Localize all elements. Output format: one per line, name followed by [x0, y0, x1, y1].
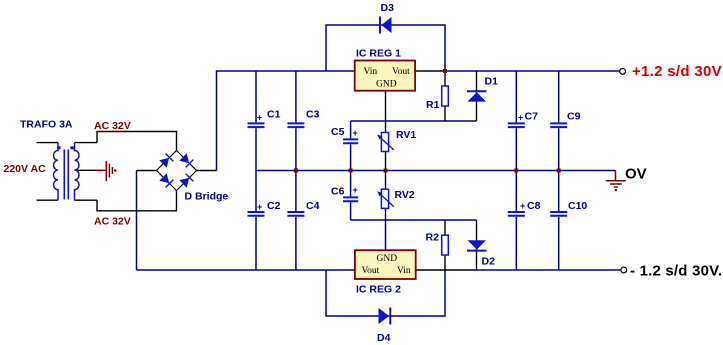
capacitor C1: [248, 123, 265, 127]
svg-text:RV1: RV1: [396, 129, 416, 141]
resistor R2: [442, 235, 449, 255]
wire bottom rail right: [477, 269, 621, 271]
wires-group: [137, 25, 621, 316]
bridge diode bottom-right: [179, 174, 193, 188]
pin stub reg1 right: [415, 70, 445, 72]
svg-text:C7: C7: [525, 111, 539, 123]
svg-text:GND: GND: [376, 80, 397, 90]
bridge diode top-right: [179, 153, 193, 167]
capacitor C5: [343, 139, 358, 143]
capacitor C6: [343, 197, 358, 201]
svg-text:+: +: [353, 128, 358, 138]
capacitor C8: [508, 212, 525, 216]
wire D4 loop: [326, 270, 445, 316]
svg-text:- 1.2 s/d 30V.: - 1.2 s/d 30V.: [630, 263, 722, 280]
svg-text:D4: D4: [377, 332, 391, 344]
svg-text:C3: C3: [306, 109, 320, 121]
transformer polarity dots: [57, 146, 60, 149]
diode D1: [467, 91, 487, 101]
RV2 leads: [385, 171, 387, 221]
transformer T1 primary winding: [54, 143, 59, 201]
diode D4: [379, 308, 391, 325]
wire top rail left: [217, 71, 348, 171]
transformer secondary leads: [75, 143, 98, 201]
resistor R1: [442, 86, 449, 106]
capacitor plus marks: [257, 113, 525, 213]
svg-text:Vout: Vout: [392, 67, 410, 77]
svg-text:C8: C8: [527, 200, 541, 212]
svg-text:D2: D2: [482, 256, 496, 268]
GND pin reg1: [385, 91, 387, 121]
svg-text:+: +: [257, 113, 262, 123]
op IC REG 2 box: [355, 250, 416, 279]
svg-text:Vin: Vin: [397, 266, 411, 276]
capacitor C7: [508, 123, 525, 127]
transformer primary leads: [37, 143, 59, 201]
svg-text:RV2: RV2: [395, 189, 415, 201]
wire bottom rail left: [137, 269, 348, 271]
svg-text:OV: OV: [625, 166, 647, 183]
svg-text:+: +: [520, 201, 525, 211]
svg-text:R2: R2: [426, 232, 440, 244]
svg-text:C9: C9: [567, 111, 581, 123]
capacitor C4: [287, 212, 304, 216]
svg-text:+1.2 s/d 30V: +1.2 s/d 30V: [632, 63, 722, 80]
wire C6 lead: [350, 171, 352, 221]
svg-text:C5: C5: [331, 126, 345, 138]
RV1 leads: [385, 121, 387, 171]
wire top rail right: [445, 70, 620, 72]
ground 0V rail: [606, 171, 626, 188]
ground center tap: [96, 161, 113, 181]
diode D2 lead: [476, 220, 478, 270]
svg-text:IC REG 2: IC REG 2: [356, 284, 401, 296]
transformer T1 secondary winding: [75, 143, 80, 201]
capacitor C10: [550, 212, 567, 216]
svg-text:AC 32V: AC 32V: [94, 120, 131, 132]
secondary routing wire top: [97, 132, 177, 151]
pin stub reg2 right: [416, 269, 477, 271]
wire GND2 lead: [385, 220, 387, 250]
bridge diamond: [157, 151, 197, 191]
wire bridge negative leg: [136, 171, 138, 271]
secondary routing wire bottom: [97, 191, 177, 211]
svg-text:TRAFO 3A: TRAFO 3A: [20, 118, 73, 130]
svg-text:Vout: Vout: [362, 266, 380, 276]
wire D3 loop: [326, 25, 445, 71]
wire adj rail bottom: [351, 219, 477, 221]
bridge stub left: [137, 170, 157, 172]
transformer core: [64, 150, 68, 200]
svg-text:D3: D3: [381, 2, 395, 14]
capacitor C2: [248, 212, 265, 216]
resistor R2 leads: [444, 220, 446, 270]
svg-text:C4: C4: [306, 200, 320, 212]
wire adj rail top: [351, 120, 477, 122]
wire 0V rail: [256, 170, 616, 172]
center tap wire: [75, 169, 96, 171]
diode D3: [380, 17, 392, 34]
svg-text:C2: C2: [267, 200, 281, 212]
svg-text:AC 32V: AC 32V: [94, 216, 131, 228]
svg-text:Vin: Vin: [364, 67, 378, 77]
wire C3 C4 vertical: [295, 71, 297, 270]
pin stub reg1 left: [347, 70, 355, 72]
potentiometer RV1: [377, 133, 394, 152]
terminal positive: [620, 69, 626, 75]
bridge stub right: [197, 170, 217, 172]
junction dots: [294, 69, 561, 173]
svg-text:220V AC: 220V AC: [4, 163, 47, 175]
svg-text:C10: C10: [568, 200, 587, 212]
svg-text:+: +: [353, 185, 358, 195]
capacitor C9: [550, 123, 567, 127]
svg-text:R1: R1: [426, 99, 440, 111]
wire C1 C2 vertical: [255, 71, 257, 270]
bridge diode bottom-left: [159, 173, 173, 187]
svg-text:D1: D1: [485, 76, 499, 88]
svg-text:C1: C1: [267, 109, 281, 121]
svg-text:GND: GND: [377, 254, 398, 264]
diode D2: [467, 240, 487, 250]
bridge diode top-left: [159, 154, 173, 168]
svg-text:C6: C6: [331, 186, 345, 198]
svg-text:+: +: [257, 202, 262, 212]
wire C9 C10 vertical: [558, 71, 560, 270]
svg-text:IC REG 1: IC REG 1: [356, 47, 401, 59]
pin stub reg2 left: [347, 269, 355, 271]
diode D1 lead: [476, 71, 478, 121]
op IC REG 1 box: [355, 61, 415, 91]
svg-text:+: +: [518, 113, 523, 123]
svg-text:D Bridge: D Bridge: [185, 191, 229, 203]
potentiometer RV2: [377, 189, 394, 208]
wire C5 lead: [350, 121, 352, 171]
terminal negative: [621, 267, 627, 273]
resistor R1 leads: [444, 71, 446, 121]
black-wires-group: [37, 71, 477, 270]
capacitor C3: [287, 123, 304, 127]
wire C7 C8 vertical: [515, 71, 517, 270]
